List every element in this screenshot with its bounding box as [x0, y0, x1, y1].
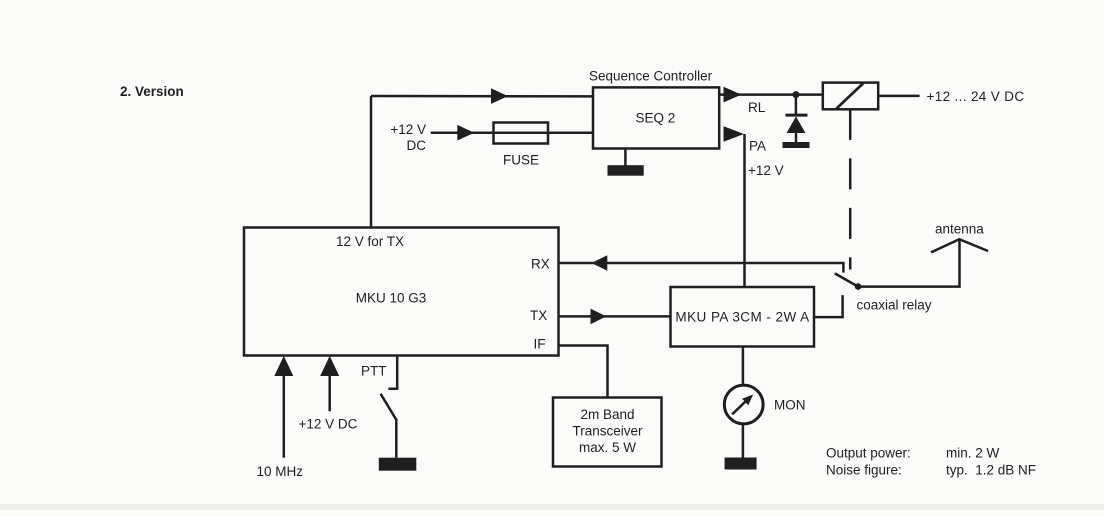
svg-text:TX: TX [530, 308, 547, 323]
svg-text:2m Band: 2m Band [580, 407, 634, 422]
wire SEQ2 ground lead [624, 149, 627, 166]
arrow +12V DC up [320, 356, 339, 376]
arrow RX in [592, 255, 608, 271]
svg-text:2. Version: 2. Version [120, 84, 184, 99]
wire MON ground lead [742, 425, 745, 458]
wire PA output [743, 134, 746, 287]
scan artifact bottom band [0, 504, 1104, 510]
svg-text:+12 V: +12 V [390, 122, 426, 137]
wire relay actuator dashed link [849, 109, 852, 270]
antenna symbol [931, 239, 988, 252]
wire top feed to SEQ2 [371, 95, 593, 98]
svg-text:PA: PA [749, 139, 766, 154]
arrow 10 MHz up [274, 356, 293, 376]
wire diode lead [795, 95, 798, 116]
op box MKU 10 G3 [244, 228, 559, 356]
wire +12V DC input lower [328, 374, 331, 411]
wire +12V DC input to fuse [431, 131, 593, 134]
svg-text:max. 5 W: max. 5 W [579, 440, 636, 455]
relay K1 diagonal [837, 83, 864, 109]
wire diode anode lead [795, 133, 798, 143]
op box SEQ2 [593, 87, 719, 148]
arrow +12V DC input [457, 125, 474, 141]
svg-text:coaxial relay: coaxial relay [857, 298, 932, 313]
svg-text:10 MHz: 10 MHz [257, 464, 304, 479]
svg-text:typ. 1.2 dB NF: typ. 1.2 dB NF [946, 463, 1036, 478]
arrow TX out [591, 309, 607, 325]
switch coaxial relay blade [835, 273, 858, 286]
svg-text:RX: RX [531, 257, 550, 272]
wire relay supply [879, 95, 920, 98]
op box MKU PA 3CM [671, 287, 815, 347]
svg-text:MON: MON [774, 398, 806, 413]
wire fuse internal [494, 131, 549, 134]
svg-text:12 V for TX: 12 V for TX [336, 234, 404, 249]
svg-text:Output power:: Output power: [826, 446, 911, 461]
wire 10 MHz input [283, 374, 286, 458]
svg-text:antenna: antenna [935, 222, 984, 237]
arrow top feed [491, 88, 508, 104]
wire PA to relay contact [814, 295, 843, 317]
node RL junction [792, 91, 799, 98]
svg-text:+12 V DC: +12 V DC [299, 417, 358, 432]
meter MON circle [724, 385, 763, 424]
wire PTT lead [388, 356, 397, 389]
op box 2m transceiver [553, 398, 662, 467]
svg-text:FUSE: FUSE [503, 153, 539, 168]
svg-text:Noise figure:: Noise figure: [826, 463, 902, 478]
arrow RL out [724, 87, 742, 103]
wire 12V-for-TX vertical feed [370, 96, 373, 228]
svg-text:Sequence Controller: Sequence Controller [589, 69, 713, 84]
ground PTT [379, 458, 417, 471]
svg-text:Transceiver: Transceiver [572, 424, 643, 439]
arrow PA out [724, 126, 745, 142]
svg-text:PTT: PTT [361, 364, 387, 379]
svg-text:DC: DC [407, 138, 427, 153]
ground MON [725, 458, 757, 470]
svg-text:RL: RL [748, 100, 766, 115]
svg-text:+12 V: +12 V [748, 163, 784, 178]
ground diode [783, 142, 810, 148]
wire MKU PA to MON [742, 347, 745, 384]
ground SEQ2 [608, 165, 644, 176]
svg-text:MKU 10 G3: MKU 10 G3 [356, 291, 427, 306]
wire antenna feed [858, 240, 959, 287]
wire RX line [559, 263, 844, 273]
wire IF line [559, 346, 608, 398]
diode D1 cathode bar [786, 114, 808, 117]
svg-text:IF: IF [534, 337, 546, 352]
svg-text:min. 2 W: min. 2 W [946, 446, 1000, 461]
fuse F1 [494, 123, 549, 144]
relay coil K1 [823, 83, 878, 110]
wire PTT to ground [395, 419, 398, 458]
switch PTT blade [381, 394, 396, 419]
diode D1 triangle [787, 117, 806, 134]
svg-text:SEQ 2: SEQ 2 [636, 111, 676, 126]
wire TX line [559, 315, 671, 318]
svg-text:MKU PA 3CM - 2W A: MKU PA 3CM - 2W A [675, 310, 809, 325]
node coaxial relay pivot [855, 283, 862, 290]
meter MON needle [732, 394, 753, 414]
svg-text:+12 ... 24 V DC: +12 ... 24 V DC [927, 89, 1025, 104]
wire RL output [720, 93, 823, 96]
